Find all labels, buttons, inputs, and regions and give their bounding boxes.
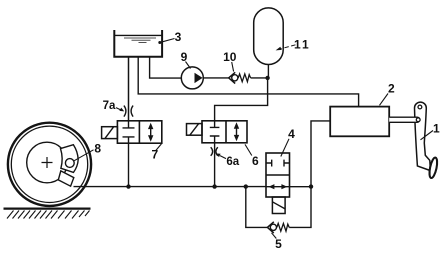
wire tank to return line [138, 57, 358, 107]
check valve 5 [267, 222, 273, 233]
caliper bracket [58, 171, 74, 186]
wheel 8 drum [27, 142, 68, 183]
wire bypass return [289, 187, 311, 228]
pump 9 [181, 67, 203, 89]
wire tank to valve 7 [128, 57, 130, 121]
label 7a arrow [116, 108, 122, 111]
valve 6 flow arrow [236, 125, 238, 139]
wire valve 6 to brake line [214, 143, 216, 187]
svg-text:7: 7 [151, 148, 158, 162]
valve 6 blocked ports [210, 121, 220, 143]
label 6 leader [245, 144, 252, 155]
solenoid of valve 7 [102, 127, 118, 139]
svg-text:11: 11 [294, 37, 311, 51]
valve 7 [117, 121, 161, 143]
pedal pad [428, 157, 439, 179]
solenoid of valve 6 [187, 124, 203, 136]
label 2 leader [380, 94, 389, 106]
node master cylinder/brake line [309, 184, 313, 188]
brake caliper 8 [61, 145, 79, 173]
brake line left [74, 186, 267, 188]
restriction 7a [124, 106, 133, 117]
svg-text:7a: 7a [103, 100, 116, 112]
spring of check valve 5 [277, 223, 289, 231]
spring of check valve 10 [238, 74, 250, 82]
accumulator 11 [254, 8, 284, 65]
label 7 leader [156, 144, 162, 151]
valve 7 blocked ports [123, 121, 135, 143]
pedal 1 [414, 102, 430, 171]
bypass loop with check valve 5 [246, 187, 267, 228]
wheel 8 tire [8, 123, 91, 206]
valve 4 flow arrows [266, 186, 290, 188]
ground hatching [7, 211, 90, 219]
master cylinder 2 [330, 107, 389, 137]
node valve7/brake line [126, 184, 130, 188]
node bypass left [244, 184, 248, 188]
brake line right of valve 4 [290, 186, 312, 188]
label 9 leader [186, 62, 191, 69]
valve 7 flow arrow [150, 125, 152, 139]
svg-text:3: 3 [175, 30, 182, 44]
reservoir 3 shading [124, 38, 156, 43]
svg-text:2: 2 [388, 82, 395, 96]
svg-text:8: 8 [94, 142, 101, 156]
cut-off valve 4 [266, 153, 290, 197]
wire spring to junction [251, 77, 268, 79]
wire accumulator stem [267, 65, 269, 78]
svg-text:9: 9 [181, 50, 188, 64]
check valve 10 [229, 72, 236, 83]
ground [4, 208, 91, 210]
wire junction to valve 6 [215, 78, 268, 121]
wheel 8 center cross [42, 157, 53, 168]
svg-text:6: 6 [252, 154, 259, 168]
svg-text:10: 10 [223, 50, 237, 64]
solenoid of valve 4 [272, 197, 285, 214]
svg-text:6a: 6a [226, 156, 239, 168]
label 11 leader [282, 45, 296, 49]
label 3 leader [161, 39, 175, 43]
label 5 leader [272, 233, 277, 239]
node junction accumulator [265, 76, 269, 80]
svg-text:5: 5 [275, 237, 282, 251]
pedal pin [416, 118, 420, 122]
wire valve 7 to brake line [128, 143, 130, 186]
label 8 leader [74, 150, 94, 161]
label 1 leader [421, 131, 434, 140]
wire master cylinder to brake line [311, 121, 330, 187]
svg-text:4: 4 [288, 127, 295, 141]
restriction 6a [211, 147, 218, 156]
valve 6 [202, 121, 247, 143]
valve 4 blocked ports [266, 160, 290, 167]
reservoir 3 [114, 30, 162, 57]
label 10 leader [232, 62, 234, 72]
label 6a arrow [220, 156, 226, 159]
push rod [389, 117, 420, 122]
label 4 leader [281, 139, 289, 157]
wire tank to pump [150, 57, 182, 78]
node valve6/brake line [212, 184, 216, 188]
pedal pivot hole [418, 105, 422, 109]
reservoir 3 liquid level [114, 34, 162, 36]
wire pump to check valve 10 [203, 77, 228, 79]
svg-text:1: 1 [433, 122, 440, 136]
